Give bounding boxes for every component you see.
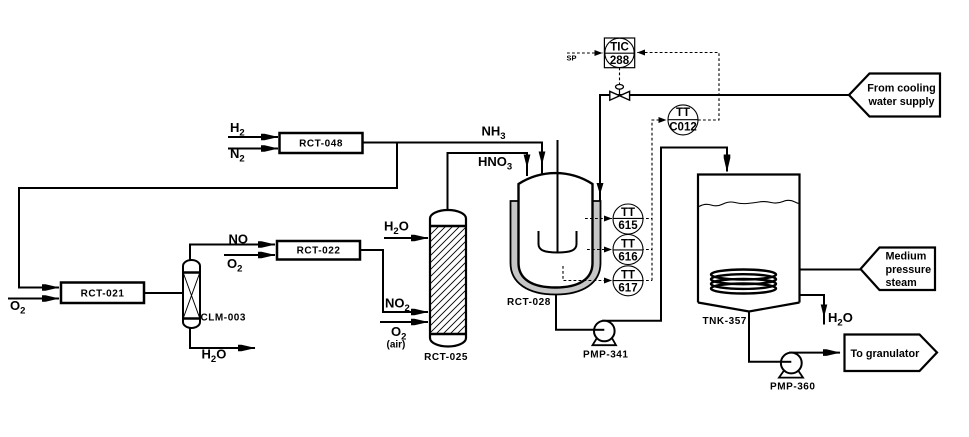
svg-text:RCT-048: RCT-048: [299, 139, 343, 150]
svg-text:HNO3: HNO3: [478, 154, 512, 173]
svg-text:RCT-028: RCT-028: [507, 297, 551, 308]
svg-text:TT: TT: [621, 269, 635, 281]
svg-text:NO: NO: [229, 232, 249, 247]
svg-text:RCT-025: RCT-025: [424, 352, 468, 363]
svg-text:RCT-022: RCT-022: [297, 246, 341, 257]
svg-text:H2: H2: [230, 120, 245, 139]
svg-text:(air): (air): [387, 340, 406, 351]
svg-text:TT: TT: [621, 207, 635, 219]
svg-text:TT: TT: [621, 239, 635, 251]
svg-text:H2O: H2O: [828, 310, 853, 329]
svg-text:616: 616: [618, 252, 637, 264]
svg-text:615: 615: [618, 220, 638, 232]
svg-text:C012: C012: [669, 122, 697, 134]
svg-text:To granulator: To granulator: [851, 348, 921, 360]
svg-text:PMP-360: PMP-360: [770, 382, 816, 393]
svg-text:steam: steam: [886, 277, 917, 289]
svg-text:From cooling: From cooling: [867, 83, 935, 95]
svg-text:H2O: H2O: [384, 219, 409, 238]
svg-text:O2: O2: [10, 298, 25, 317]
svg-text:H2O: H2O: [202, 347, 227, 366]
svg-text:288: 288: [610, 55, 630, 67]
svg-text:water supply: water supply: [868, 96, 935, 108]
svg-text:TIC: TIC: [610, 42, 629, 54]
svg-text:Medium: Medium: [886, 251, 927, 263]
svg-text:617: 617: [618, 282, 637, 294]
svg-text:TNK-357: TNK-357: [703, 316, 747, 327]
svg-text:O2: O2: [227, 256, 242, 275]
svg-text:CLM-003: CLM-003: [201, 313, 247, 324]
svg-text:PMP-341: PMP-341: [583, 350, 629, 361]
svg-text:TT: TT: [676, 107, 690, 119]
svg-text:SP: SP: [567, 53, 577, 62]
svg-text:pressure: pressure: [886, 264, 932, 276]
svg-text:NH3: NH3: [482, 124, 506, 143]
svg-text:RCT-021: RCT-021: [81, 289, 125, 300]
